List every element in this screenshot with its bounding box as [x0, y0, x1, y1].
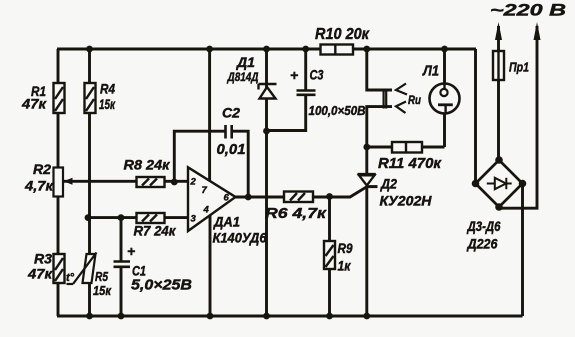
wire C3 branch upper: [304, 49, 307, 90]
svg-text:2: 2: [190, 177, 197, 188]
capacitor C3 100.0x50V plates: [297, 91, 316, 95]
wire R9 branch: [328, 197, 331, 317]
svg-text:47к: 47к: [21, 96, 47, 112]
photoresistor Ri bars: [384, 89, 387, 109]
op-amp DA1 K140UD6: [188, 167, 236, 231]
svg-text:К140УД6: К140УД6: [213, 231, 267, 246]
svg-text:47к: 47к: [27, 266, 53, 282]
node top rail R4: [86, 46, 93, 53]
svg-text:C2: C2: [222, 105, 240, 121]
svg-text:+: +: [127, 243, 135, 259]
svg-text:6: 6: [224, 193, 230, 204]
resistor R6 4.7k: [284, 192, 313, 203]
resistor R10 20k: [321, 45, 354, 55]
svg-text:Л1: Л1: [422, 64, 439, 80]
svg-text:Д226: Д226: [467, 236, 498, 252]
node bottom rail thyristor: [363, 313, 370, 320]
resistor R3 47k: [54, 254, 65, 283]
svg-text:R5: R5: [95, 270, 109, 284]
svg-text:R11 470к: R11 470к: [378, 155, 442, 172]
wire lamp bottom lead: [443, 114, 446, 148]
node inverting line C1: [118, 214, 125, 221]
svg-text:C1: C1: [132, 263, 146, 279]
node top rail lamp: [441, 46, 448, 53]
wire AC right: [499, 26, 537, 208]
node op-amp output: [245, 194, 252, 201]
node zener C3 junction: [263, 128, 270, 135]
node bottom rail C1: [118, 313, 125, 320]
svg-text:+: +: [290, 67, 298, 83]
svg-text:15к: 15к: [93, 284, 112, 298]
wire LDR bottom lead: [367, 107, 392, 174]
resistor R9 1k: [324, 241, 335, 269]
svg-text:R3: R3: [34, 251, 52, 267]
resistor R4 15k: [85, 83, 96, 113]
node inverting line R5: [85, 214, 92, 221]
bridge inner diode: [487, 178, 512, 189]
lamp L1: [430, 84, 460, 114]
capacitor C2 0.01 plates: [226, 125, 232, 139]
svg-text:Rи: Rи: [408, 95, 421, 107]
resistor R8 24k: [137, 177, 165, 187]
node C2 input junction: [171, 179, 178, 186]
resistor R7 24k: [137, 213, 165, 223]
wire AC left with fuse: [497, 26, 500, 160]
svg-text:R8 24к: R8 24к: [124, 157, 171, 173]
svg-text:ДА1: ДА1: [213, 214, 240, 230]
wire LDR top lead: [367, 49, 392, 90]
svg-text:4: 4: [203, 205, 210, 216]
svg-text:КУ202Н: КУ202Н: [380, 194, 432, 209]
wire left rail: [57, 49, 60, 316]
node bridge left vertex: [472, 180, 480, 188]
resistor R11 470k: [392, 142, 422, 153]
node bridge right vertex: [519, 180, 527, 188]
wire C2 feedback loop right: [232, 131, 249, 196]
wire op-amp output to thyristor gate: [235, 186, 368, 197]
wire bridge left vertex riser: [474, 49, 477, 184]
node top rail after R10: [363, 46, 370, 53]
fuse Pr1: [493, 51, 504, 80]
svg-text:t°: t°: [66, 272, 75, 284]
svg-text:R7 24к: R7 24к: [134, 223, 177, 239]
svg-text:0,01: 0,01: [217, 142, 246, 158]
svg-text:R6 4,7к: R6 4,7к: [265, 206, 327, 222]
svg-text:Пр1: Пр1: [509, 60, 529, 75]
svg-text:7: 7: [202, 185, 208, 196]
node R11 thyristor junction: [363, 144, 370, 151]
capacitor C1 5.0x25V plates: [114, 262, 131, 267]
node top rail C3: [302, 46, 309, 53]
svg-text:4,7к: 4,7к: [24, 178, 54, 194]
svg-text:R9: R9: [338, 240, 353, 256]
thermistor R5 15k: [67, 253, 97, 285]
AC arrow right: [534, 22, 541, 40]
svg-text:1к: 1к: [338, 258, 352, 274]
bridge D3-D6 diamond: [476, 160, 523, 207]
node bottom rail pin4: [207, 313, 214, 320]
wire R2 wiper to R8 to op-amp input: [64, 180, 189, 183]
node bridge bottom vertex: [495, 203, 503, 211]
svg-text:Д3-Д6: Д3-Д6: [467, 218, 501, 234]
svg-text:R10 20к: R10 20к: [315, 26, 370, 43]
zener diode D1 D814D: [259, 84, 277, 99]
svg-text:3: 3: [191, 214, 197, 225]
svg-text:100,0×50В: 100,0×50В: [309, 104, 366, 118]
wire R11 line: [367, 146, 445, 149]
node bridge top vertex: [495, 156, 503, 164]
wire inverting input line: [88, 216, 189, 219]
wire right edge riser to bridge: [521, 184, 524, 317]
svg-text:Д814Д: Д814Д: [227, 70, 259, 84]
resistor R1 47k: [54, 83, 65, 113]
svg-text:~220 В: ~220 В: [490, 2, 566, 20]
svg-text:Д1: Д1: [236, 54, 255, 70]
wire pin4 to bottom rail: [209, 216, 212, 317]
svg-text:R2: R2: [33, 161, 51, 177]
wire zener branch: [265, 49, 268, 316]
wire C1 branch upper: [120, 218, 123, 261]
AC arrow left: [495, 22, 502, 40]
wire C3 bottom to zener line: [267, 96, 306, 131]
svg-text:15к: 15к: [99, 96, 116, 112]
svg-text:5,0×25В: 5,0×25В: [131, 278, 192, 294]
svg-text:Д2: Д2: [380, 176, 397, 192]
node bottom rail R5: [86, 313, 93, 320]
svg-text:C3: C3: [310, 67, 324, 83]
potentiometer R2 4.7k body: [54, 168, 64, 197]
node top rail zener: [263, 46, 270, 53]
wire lamp top lead: [443, 49, 446, 89]
thyristor D2 KU202N: [358, 174, 378, 186]
wire pin7 supply: [208, 49, 211, 181]
wire C1 branch lower: [120, 268, 123, 317]
svg-text:R4: R4: [100, 81, 115, 97]
node top rail pin7: [206, 46, 213, 53]
node bottom rail zener: [263, 313, 270, 320]
potentiometer R2 wiper arrow: [64, 178, 73, 185]
wire R4-R5 vertical: [88, 49, 91, 316]
wire bottom rail: [57, 315, 523, 318]
light arrow lower: [396, 102, 406, 114]
light arrow upper: [396, 84, 407, 95]
node bottom rail R9: [326, 313, 333, 320]
node gate R9 junction: [326, 193, 333, 200]
wire top rail: [57, 48, 476, 51]
wire thyristor cathode: [365, 187, 368, 317]
wire C2 feedback loop left: [174, 131, 225, 182]
